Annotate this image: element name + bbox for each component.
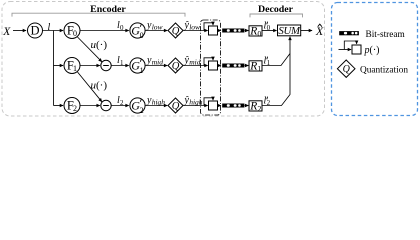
wire F0 to G'0	[80, 30, 129, 32]
svg-text:0: 0	[140, 31, 144, 40]
wire G'2 to Q row3	[145, 105, 167, 107]
wire vertical into SUM bottom	[289, 37, 291, 54]
svg-text:(·): (·)	[96, 39, 107, 51]
svg-text:D: D	[30, 24, 39, 38]
svg-text:0: 0	[73, 29, 77, 38]
svg-text:2: 2	[140, 106, 144, 115]
svg-text:high: high	[189, 97, 203, 106]
wire p-model to bitstream row3	[218, 105, 221, 107]
block G'0	[130, 23, 145, 38]
wire D to F0	[43, 30, 63, 32]
p-model box row1	[209, 26, 218, 35]
legend box (blue dashed rounded)	[332, 3, 418, 116]
svg-text:R: R	[249, 100, 257, 112]
wire X to D	[13, 30, 26, 32]
svg-text:Decoder: Decoder	[258, 4, 294, 15]
svg-text:2: 2	[257, 104, 261, 113]
svg-text:high: high	[152, 97, 166, 106]
svg-text:Encoder: Encoder	[90, 4, 126, 15]
wire F2 to minus row3	[80, 105, 100, 107]
block D circle	[28, 23, 43, 38]
svg-text:mid: mid	[189, 57, 201, 66]
block G'1	[130, 58, 145, 73]
wire R1 up to SUM	[262, 54, 290, 66]
svg-text:(·): (·)	[370, 45, 380, 56]
svg-text:Q: Q	[343, 64, 351, 75]
svg-text:R: R	[249, 60, 257, 72]
wire R2 up to SUM	[262, 54, 290, 106]
svg-text:SUM: SUM	[278, 25, 301, 37]
svg-text:X: X	[315, 24, 324, 38]
minus junction row at y=105.5	[101, 100, 111, 110]
quantizer Q row3	[168, 98, 183, 113]
svg-text:(·): (·)	[96, 80, 107, 92]
svg-text:Q: Q	[172, 61, 180, 72]
svg-text:2: 2	[73, 104, 77, 113]
block G'2	[130, 98, 145, 113]
wire bitstream to R1	[245, 65, 249, 67]
svg-text:Bit-stream: Bit-stream	[366, 30, 406, 40]
wire G'1 to Q row2	[145, 65, 167, 67]
svg-text:0: 0	[257, 29, 261, 38]
svg-text:low: low	[152, 22, 163, 31]
block F2	[64, 98, 80, 114]
svg-text:1: 1	[257, 64, 261, 73]
Encoder brace	[12, 13, 185, 16]
svg-text:Quantization: Quantization	[360, 66, 408, 76]
minus junction row at y=65.5	[101, 60, 111, 70]
block R1	[249, 61, 262, 71]
legend bit-stream icon	[339, 31, 359, 35]
wire bitstream to R0	[245, 30, 249, 32]
block R2	[249, 101, 262, 111]
svg-text:l: l	[48, 22, 51, 33]
quantizer Q row1	[168, 23, 183, 38]
bit-stream row1	[222, 29, 244, 33]
wire minus to G'2	[111, 105, 129, 107]
bit-stream row3	[222, 104, 244, 108]
quantizer Q row2	[168, 58, 183, 73]
svg-text:Q: Q	[172, 101, 180, 112]
wire p-model to bitstream row1	[218, 30, 221, 32]
svg-text:X: X	[2, 26, 11, 38]
wire branch to F1	[54, 65, 64, 67]
wire u() upsample F1 to minus row3	[78, 72, 102, 102]
block F0	[64, 23, 80, 39]
wire branch to F2	[54, 105, 64, 107]
svg-text:mid: mid	[152, 57, 164, 66]
svg-text:R: R	[249, 25, 257, 37]
wire SUM to X-hat	[301, 30, 312, 32]
wire G'0 to Q row1	[145, 30, 167, 32]
wire bitstream to R2	[245, 105, 249, 107]
svg-text:Q: Q	[172, 26, 180, 37]
block SUM	[278, 25, 301, 36]
svg-text:1: 1	[140, 66, 144, 75]
wire u() upsample F0 to minus row2	[78, 37, 102, 62]
block F1	[64, 58, 80, 74]
svg-text:low: low	[189, 22, 200, 31]
legend p() icon	[352, 45, 361, 54]
legend quantization icon	[337, 60, 355, 77]
wire minus to G'1	[111, 65, 129, 67]
outer figure border (gray dashed rounded)	[2, 2, 325, 117]
p-model box row2	[209, 61, 218, 70]
svg-text:0: 0	[120, 24, 124, 32]
wire F1 to minus row2	[80, 65, 100, 67]
svg-text:1: 1	[73, 64, 77, 73]
Decoder brace	[250, 14, 303, 17]
wire Q to p-model row2	[184, 65, 208, 67]
wire branch vertical down from junction	[53, 31, 55, 106]
wire Q to p-model row3	[184, 105, 208, 107]
p(.) context dash-dot group box	[201, 20, 221, 115]
block R0	[249, 26, 262, 36]
wire Q to p-model row1	[184, 30, 208, 32]
bit-stream row2	[222, 64, 244, 68]
p-model box row3	[209, 101, 218, 110]
wire p-model to bitstream row2	[218, 65, 221, 67]
svg-text:2: 2	[120, 99, 124, 107]
svg-text:1: 1	[120, 59, 124, 67]
wire R0 to SUM	[262, 30, 277, 32]
